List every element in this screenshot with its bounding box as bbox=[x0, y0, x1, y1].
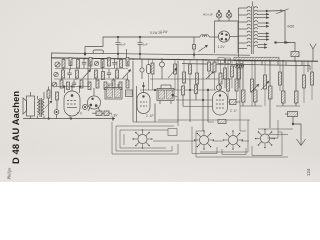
output transformer T2 core bbox=[40, 98, 42, 117]
dropper resistor Rg6 bbox=[285, 112, 298, 125]
resistor Rd1 bbox=[47, 87, 50, 119]
resistor Re6 bbox=[196, 73, 199, 84]
transformer primary winding bbox=[247, 7, 250, 47]
resistor Ra3 bbox=[77, 60, 80, 69]
resistor Rc7 bbox=[112, 80, 115, 88]
resistor Rf3 bbox=[231, 66, 234, 77]
box row wire bbox=[55, 68, 128, 70]
wire bus main bbox=[51, 58, 318, 61]
switch arm lower bbox=[275, 42, 289, 44]
resistor Re3 bbox=[174, 64, 177, 74]
smoothing resistor Rg2 bbox=[254, 61, 258, 106]
resistor Rh8 bbox=[303, 75, 306, 88]
output tube V4 bbox=[64, 87, 80, 119]
capacitor Ca2 bbox=[112, 58, 116, 68]
resistor Rb2 bbox=[76, 70, 79, 78]
secondary tap arrows low group bbox=[258, 33, 269, 41]
IF transformer IFT1 bbox=[105, 84, 122, 99]
capacitor Ca1 bbox=[82, 58, 86, 68]
resistor Rc2 bbox=[67, 82, 70, 90]
resistor Rh5 bbox=[251, 79, 254, 92]
filament rheostat arrow bbox=[199, 45, 208, 51]
transformer primary taps bbox=[239, 8, 248, 49]
wire drop x88 bbox=[87, 59, 89, 87]
pot arrow right bbox=[261, 81, 269, 90]
resistor Rb4 bbox=[102, 72, 105, 80]
grid line V3 bbox=[176, 99, 213, 101]
tuning arrow IFT2 bbox=[171, 94, 177, 97]
bus junction dots bbox=[84, 58, 296, 62]
resistor Rf4 bbox=[238, 68, 241, 79]
loudspeaker LS bbox=[23, 92, 35, 116]
resistor Rh3 bbox=[227, 79, 230, 91]
output transformer T2 secondary bbox=[42, 99, 44, 115]
tube V3 bbox=[213, 75, 228, 115]
resistor Re4 bbox=[183, 72, 186, 83]
tube socket S2 bbox=[194, 130, 214, 150]
jack J1 bbox=[83, 105, 88, 110]
tube socket S1 bbox=[132, 129, 152, 149]
filter choke Rg3 bbox=[269, 61, 273, 128]
scan noise overlay bbox=[0, 0, 1, 1]
terminal strip bbox=[234, 57, 279, 61]
capacitor C1 bbox=[116, 36, 121, 59]
tube V2 bbox=[137, 82, 150, 114]
resistor Rb5 bbox=[116, 70, 119, 78]
trimmer cap T-c bbox=[54, 72, 58, 76]
variable capacitor arrow VC1 bbox=[83, 70, 91, 79]
wire bus right drop bbox=[309, 66, 311, 70]
bias arrow bbox=[45, 101, 52, 108]
resistor Rc3 bbox=[80, 80, 83, 88]
socket S2 surround bbox=[192, 127, 217, 154]
resistor Rh6 bbox=[264, 75, 267, 89]
tube socket S4 bbox=[255, 129, 275, 149]
coupling cap Ce1 bbox=[126, 90, 133, 97]
heater dropper Rh1 bbox=[218, 120, 226, 124]
AVC rail bbox=[150, 78, 232, 80]
output transformer T2 primary bbox=[38, 99, 40, 115]
IF transformer IFT2 bbox=[157, 85, 174, 104]
wire vertical x203 bbox=[202, 61, 204, 131]
resistor Ra4 bbox=[89, 58, 92, 67]
heater frame bbox=[215, 21, 239, 53]
capacitor Cb2 bbox=[107, 69, 111, 79]
resistor Rc4 bbox=[88, 82, 91, 90]
decoupling circle Cg0 bbox=[216, 77, 221, 90]
grid wire rail bbox=[56, 86, 90, 88]
resistor Ra2 bbox=[69, 58, 72, 66]
wire h right a bbox=[240, 105, 262, 107]
resistor Rc9 bbox=[126, 80, 129, 88]
capacitor Cb1 bbox=[67, 69, 71, 79]
resistor R1 bbox=[93, 50, 104, 54]
socket nest S1 wiring bbox=[112, 122, 178, 154]
wire drop x308 bbox=[307, 61, 309, 72]
junction box near S1 bbox=[168, 129, 177, 136]
resistor Rf5 bbox=[208, 62, 211, 71]
wire h lower b bbox=[270, 134, 288, 136]
trimmer cap T-d bbox=[52, 82, 57, 87]
wire h lower a bbox=[258, 128, 293, 130]
wire feed B bbox=[51, 53, 250, 56]
capacitor C2 bbox=[138, 36, 143, 59]
wire h right b bbox=[276, 105, 300, 107]
wire vertical x136 bbox=[136, 86, 138, 122]
terminal box b bbox=[226, 58, 231, 63]
trimmer cap T-b bbox=[94, 61, 98, 65]
cathode resistor Rd3 bbox=[92, 111, 112, 116]
component lead stubs bbox=[149, 59, 313, 106]
fuse F1 bbox=[285, 43, 299, 62]
chassis arrow bbox=[297, 137, 306, 146]
resistor Rh2 bbox=[219, 73, 222, 84]
terminal box a bbox=[218, 58, 224, 64]
wire vertical x133 bbox=[132, 61, 134, 122]
resistor Rc1 bbox=[60, 80, 63, 88]
wire to ground arrow bbox=[292, 123, 301, 137]
resistor Rc5 bbox=[96, 80, 99, 88]
capacitor Cc1 bbox=[72, 80, 76, 89]
volume pot arrow bbox=[168, 68, 177, 78]
grid cap resistor bbox=[193, 37, 196, 59]
resistor Re1 bbox=[147, 65, 151, 74]
dial lamp socket a bbox=[235, 64, 239, 68]
primary feed rail bbox=[238, 8, 240, 60]
transformer secondary winding bbox=[254, 7, 257, 47]
tube socket S3 bbox=[223, 130, 243, 150]
secondary tap arrows mid group bbox=[258, 22, 269, 27]
wire box left edge bbox=[51, 53, 53, 100]
small can Ce0 bbox=[140, 59, 144, 79]
choke coil L1 bbox=[200, 35, 209, 37]
mains plug bbox=[310, 44, 316, 62]
resistor Rc6 bbox=[104, 82, 107, 90]
wire coil to tube bbox=[209, 36, 218, 38]
dial lamp socket b bbox=[239, 64, 243, 68]
power transformer T1 core bbox=[251, 2, 253, 55]
tube V1 bbox=[87, 88, 100, 111]
resistor Ra1 bbox=[62, 60, 65, 69]
anode line V3 bbox=[183, 105, 213, 107]
rectifier tube V5 top view bbox=[218, 31, 229, 42]
AF coupling wires bbox=[155, 61, 190, 122]
resistor Rh7 bbox=[279, 72, 282, 85]
resistor Rb3 bbox=[95, 70, 98, 78]
wire top feed bbox=[85, 37, 200, 47]
secondary tap arrows top group bbox=[258, 10, 269, 19]
bus tie bars bbox=[262, 61, 302, 66]
electrolytic can Ce2 bbox=[160, 59, 165, 79]
pilot lamp La1 bbox=[216, 10, 222, 21]
trimmer cap T-a bbox=[55, 62, 60, 67]
resistor Re2 bbox=[151, 63, 154, 74]
wire bus second bbox=[182, 64, 310, 66]
socket S4 surround bbox=[252, 132, 282, 156]
box column wires bbox=[62, 58, 128, 81]
resistor Ra7 bbox=[120, 60, 123, 68]
resistor Rg5 bbox=[295, 61, 299, 106]
wire tube to right bbox=[230, 36, 238, 38]
resistor Ra6 bbox=[108, 58, 111, 67]
wire feed drop x85 bbox=[84, 47, 86, 56]
pilot lamp La2 bbox=[226, 10, 232, 21]
wire drop x126 bbox=[126, 49, 128, 59]
wire vertical x208 bbox=[207, 89, 209, 123]
heater tap arrows bbox=[258, 44, 267, 49]
electrolytic Cd1 bbox=[54, 92, 59, 119]
variable capacitor arrow VC2 bbox=[123, 70, 131, 79]
resistor Rg4 bbox=[282, 61, 286, 106]
resistor Ra5 bbox=[101, 60, 104, 68]
grid rail bbox=[140, 89, 216, 91]
resistor Rf6 bbox=[213, 62, 216, 72]
smoothing resistor Rg1 bbox=[242, 61, 246, 106]
resistor Rh9 bbox=[311, 72, 314, 85]
tone pot arrow bbox=[206, 71, 214, 79]
resistor Re5 bbox=[189, 64, 192, 74]
socket rail wires bbox=[153, 61, 288, 157]
resistor Re8 bbox=[195, 85, 198, 100]
resistor Rf2 bbox=[224, 68, 227, 79]
socket S3 surround bbox=[222, 148, 246, 155]
resistor Rc8 bbox=[119, 82, 122, 90]
resistor Re7 bbox=[182, 86, 185, 106]
resistor Rh4 bbox=[235, 79, 238, 91]
resistor Rb1 bbox=[62, 70, 65, 78]
volume arrow right bbox=[251, 84, 259, 92]
switch feed wire bbox=[269, 10, 285, 13]
box row wire lower bbox=[54, 78, 128, 80]
grid stopper Rf1 bbox=[228, 100, 241, 105]
resistor Ra8 bbox=[126, 58, 129, 67]
ground return wire bbox=[23, 118, 115, 121]
speaker wiring bbox=[31, 92, 45, 119]
voltage selector switch S1 bbox=[276, 9, 289, 43]
